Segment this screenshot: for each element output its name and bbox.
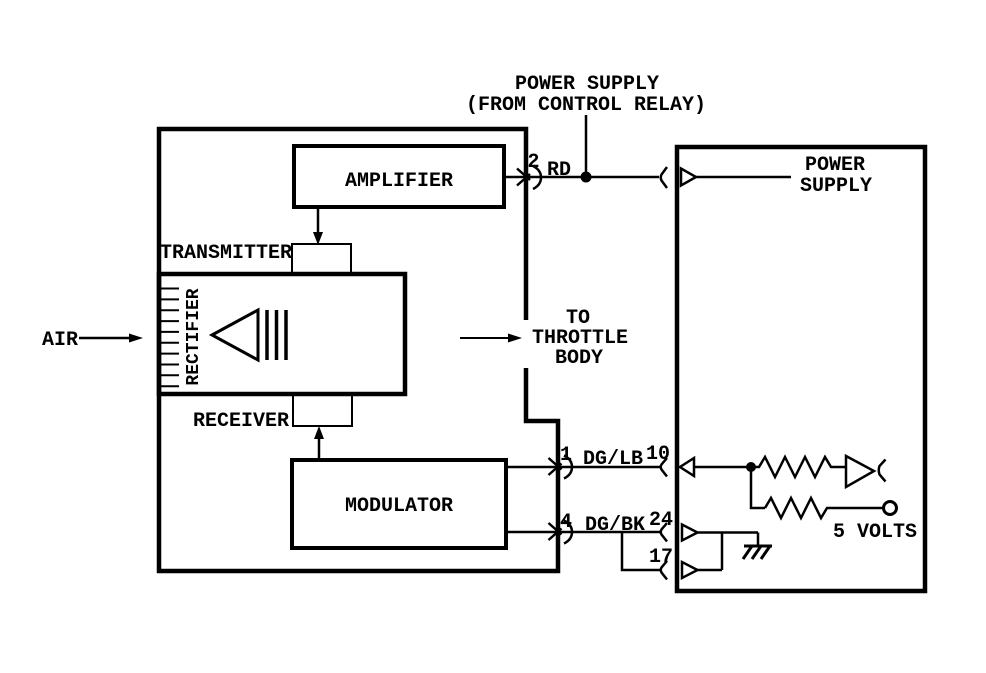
svg-text:17: 17 [649,546,673,569]
connector female [564,521,572,544]
wire: power supply drop [585,115,588,174]
wire: branch to pin 17 [622,532,660,570]
resistor R1 [751,457,846,477]
wire: divider to 5 volts [751,467,765,508]
connector female at module pin 10 [661,458,667,477]
svg-text:1: 1 [560,444,572,467]
wire: amplifier output (RD) [504,176,582,179]
svg-text:SUPPLY: SUPPLY [800,175,872,198]
modulator block [292,460,506,548]
module pin 10 triangle [680,458,694,476]
wire: pin 24 to ground [697,531,758,534]
svg-text:MODULATOR: MODULATOR [345,495,453,518]
svg-text:POWER: POWER [805,154,865,177]
module pin 17 triangle [682,562,698,578]
svg-text:4: 4 [560,511,572,534]
resistor R2 [765,498,883,518]
connector female [533,166,541,189]
module pin 24 triangle [682,525,698,541]
svg-text:2: 2 [527,151,539,174]
wire: inside module to POWER SUPPLY [696,176,791,179]
comparator triangle [846,456,874,487]
outer box: airflow sensor enclosure [159,129,558,571]
svg-text:10: 10 [646,443,670,466]
ground [743,546,772,559]
svg-text:RECEIVER: RECEIVER [193,410,289,433]
wire: pin 17 tie [697,569,722,572]
5 volt terminal [884,502,897,515]
comparator output curl [879,460,886,482]
wire: modulator to receiver [318,437,321,460]
connector female at module pin 17 [661,561,667,580]
svg-text:AMPLIFIER: AMPLIFIER [345,170,453,193]
svg-text:RD: RD [547,159,571,182]
wire: tie vertical [721,533,724,571]
wire: modulator output DG/BK [506,531,660,534]
amplifier block [294,146,504,207]
svg-text:5 VOLTS: 5 VOLTS [833,521,917,544]
connector male [549,458,562,470]
module box (power supply / logic) [677,147,925,591]
vane bars [267,310,286,360]
wire: AIR inlet arrow [79,337,130,340]
svg-text:BODY: BODY [555,347,603,370]
connector female at module [661,167,667,188]
connector female [564,456,572,479]
junction node divider [746,462,756,472]
wire: modulator output DG/LB [506,466,660,469]
air grille hatching [161,289,179,387]
junction node [581,172,592,183]
connector female at module pin 24 [661,523,667,542]
svg-text:DG/BK: DG/BK [585,514,645,537]
connector male [549,523,562,535]
connector male at sensor case [517,169,530,181]
svg-text:AIR: AIR [42,329,78,352]
wire: to throttle body arrow [460,337,508,339]
wire: pin 10 to divider [694,466,751,469]
rectifier body [159,274,405,394]
wire: amplifier to transmitter [317,207,320,235]
svg-text:POWER SUPPLY: POWER SUPPLY [515,73,659,96]
wire: ground stub [757,533,760,547]
module pin triangle [681,169,696,186]
svg-text:(FROM CONTROL RELAY): (FROM CONTROL RELAY) [466,94,706,117]
deflection triangle symbol [212,310,258,360]
svg-text:DG/LB: DG/LB [583,448,643,471]
wire: to power supply module [586,176,659,179]
svg-text:TRANSMITTER: TRANSMITTER [160,242,292,265]
svg-text:RECTIFIER: RECTIFIER [184,288,204,385]
